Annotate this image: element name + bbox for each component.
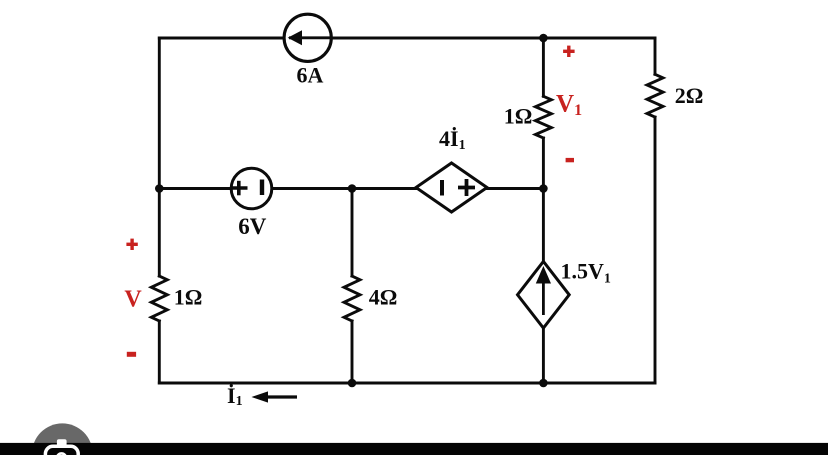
gray circle (avatar behind camera icon, bottom left) — [32, 423, 93, 455]
camera icon (white outline) — [45, 439, 78, 455]
red minus sign (V polarity, left bottom) — [127, 352, 136, 357]
dependent voltage source 4I1 (diamond with bar and +) — [416, 163, 487, 212]
wire middle vertical x=352: node down to resistor 4ohm — [351, 189, 354, 277]
node dot bottom (x=352) — [348, 379, 357, 388]
current source I 6A (circle with left arrow) — [284, 14, 331, 61]
resistor R 4ohm zigzag — [344, 276, 360, 321]
wire: resistor 4ohm to bottom wire — [351, 321, 354, 383]
node dot right middle (x=543) — [539, 184, 548, 193]
wire: resistor 1ohm to middle node — [542, 138, 545, 262]
wire: dependent source 1.5V1 bottom to bottom wire — [542, 328, 545, 383]
wire top: left corner to right corner — [159, 37, 655, 40]
wire vertical x=543 top: node on top wire down to resistor 1ohm — [542, 38, 545, 96]
red minus sign (V1 polarity, bottom) — [566, 158, 574, 162]
svg-text:2Ω: 2Ω — [675, 83, 704, 108]
node dot bottom (x=543) — [539, 379, 548, 388]
svg-text:6A: 6A — [297, 63, 324, 88]
node dot top (x=543 on top wire) — [539, 34, 548, 43]
svg-text:1.5V1: 1.5V1 — [561, 259, 611, 287]
dependent current source 1.5V1 (diamond with up arrow) — [518, 262, 570, 329]
node dot center middle (x=352) — [348, 184, 357, 193]
svg-text:4Ω: 4Ω — [369, 285, 398, 310]
wire middle horizontal: left node to 6V source — [159, 187, 232, 190]
black bottom bar — [0, 443, 828, 455]
resistor R 2ohm zigzag — [647, 74, 663, 117]
current direction arrow (pointing left) — [252, 391, 298, 402]
voltage source V 6V (circle with + and bar) — [231, 168, 272, 209]
node dot left middle — [155, 184, 164, 193]
wire left: top-left corner down to resistor R(1ohm left) — [158, 38, 161, 276]
red plus sign (V1 polarity, top) — [563, 46, 575, 57]
resistor R 1ohm (top, V1 across) zigzag — [535, 96, 551, 138]
wire: 6V source to center node — [271, 187, 416, 190]
wire right upper: top-right corner to resistor 2ohm — [654, 38, 657, 74]
wire: dependent source 4I1 to node at x=543 — [487, 187, 543, 190]
svg-text:V: V — [124, 287, 142, 313]
svg-text:1Ω: 1Ω — [504, 104, 533, 129]
red plus sign (V polarity, left top) — [126, 239, 137, 250]
wire bottom: left corner to right corner — [159, 382, 655, 385]
wire left lower: resistor to bottom-left corner — [158, 321, 161, 383]
resistor R 1ohm (left, with red V across) zigzag — [151, 276, 167, 321]
svg-text:6V: 6V — [238, 214, 267, 239]
svg-text:1Ω: 1Ω — [174, 285, 203, 310]
wire right lower: resistor 2ohm to bottom-right corner — [654, 117, 657, 383]
